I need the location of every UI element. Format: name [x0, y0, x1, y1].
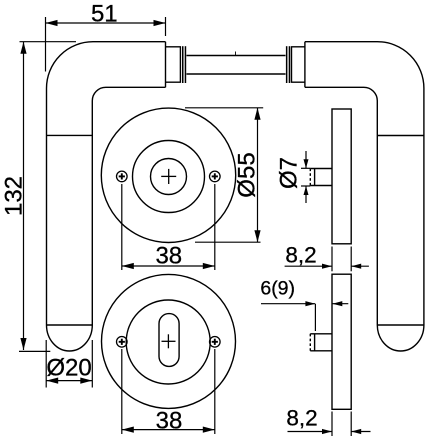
- right bearing collar: [292, 47, 305, 82]
- upper rose side view plate: [332, 109, 351, 244]
- lower spindle pin side view: [310, 334, 332, 351]
- dim 132 arrow top: [20, 42, 26, 54]
- svg-text:8,2: 8,2: [286, 406, 317, 431]
- dim D55 extension line bottom: [195, 241, 261, 243]
- dim 51 line: [46, 22, 166, 24]
- svg-text:6(9): 6(9): [260, 278, 295, 300]
- lower rose center cross: [162, 334, 176, 348]
- dim D20 extension line right: [91, 340, 93, 388]
- upper rose outer circle: [101, 108, 235, 242]
- dim 38 lower line: [122, 429, 215, 431]
- left lever grip joint line: [47, 134, 93, 136]
- dim 38 upper extension line right: [214, 184, 216, 270]
- right lever grip joint line: [377, 135, 424, 137]
- svg-text:51: 51: [91, 1, 118, 28]
- right lever grip end cap: [377, 325, 424, 351]
- dim D7 tick top: [301, 167, 310, 169]
- dim D55 extension line top: [185, 107, 263, 109]
- spindle: [187, 52, 286, 75]
- upper rose spindle hole: [151, 159, 187, 195]
- dim 8,2 upper arrow left: [322, 264, 332, 269]
- dim 38 lower arrow left: [122, 427, 134, 433]
- dim 132 arrow bottom: [20, 338, 26, 350]
- dim 132 extension line top: [20, 41, 77, 43]
- dim 8,2 upper extension right: [350, 247, 352, 272]
- dim 8,2 lower arrow right: [351, 429, 370, 434]
- left collar ring: [182, 46, 186, 83]
- lower rose screw left: [117, 337, 128, 348]
- svg-text:Ø7: Ø7: [276, 157, 303, 189]
- svg-text:38: 38: [155, 243, 182, 270]
- dim 51 arrow right: [154, 20, 166, 26]
- dim D55 line: [257, 108, 259, 242]
- upper spindle pin side view: [310, 169, 332, 186]
- dim 51 extension line right: [165, 17, 167, 36]
- dim 38 lower extension line left: [121, 349, 123, 434]
- dim D7 arrow top: [304, 151, 309, 168]
- dim 6(9) arrow right-pointing: [305, 301, 315, 306]
- dim 8,2 lower extension right: [350, 412, 352, 436]
- left lever inner contour: [92, 87, 165, 325]
- dim 38 upper arrow right: [203, 263, 215, 269]
- svg-text:38: 38: [156, 407, 183, 434]
- dim 6(9) extension line: [314, 304, 316, 331]
- dim D55 arrow bottom: [254, 230, 260, 242]
- left lever end face: [165, 42, 167, 88]
- upper rose middle circle: [133, 141, 205, 213]
- dim 6(9) leader: [261, 303, 315, 305]
- dim 51 arrow left: [46, 20, 58, 26]
- dim 8,2 upper arrow right: [351, 264, 369, 269]
- dim 8,2 upper extension left: [331, 247, 333, 272]
- dim D20 line: [46, 380, 92, 382]
- dim 132 line: [23, 42, 25, 350]
- lower rose middle circle: [126, 300, 210, 384]
- dim 38 lower arrow right: [203, 427, 215, 433]
- dim D20 extension line left: [45, 340, 47, 388]
- left lever grip end cap: [47, 325, 93, 351]
- upper rose screw left: [117, 171, 128, 182]
- dim 51 extension line left: [45, 17, 47, 72]
- dim D55 arrow top: [254, 108, 260, 120]
- right lever inner contour: [305, 87, 377, 325]
- dim 6(9) arrow left-pointing at rose face: [332, 301, 348, 306]
- right lever outer contour: [305, 42, 424, 325]
- dim 8,2 lower leader left: [288, 431, 332, 433]
- upper rose screw right: [210, 171, 221, 182]
- lower rose side view plate: [332, 274, 351, 409]
- dim D7 tick bottom: [301, 185, 310, 187]
- dim 132 extension line bottom: [19, 350, 50, 352]
- dim 38 upper extension line left: [121, 184, 123, 270]
- dim 38 lower extension line right: [214, 349, 216, 434]
- dim D7 arrow bottom: [304, 186, 309, 203]
- dim 38 upper line: [122, 265, 215, 267]
- right collar ring: [286, 46, 290, 83]
- left lever grip end cap joint: [47, 324, 93, 326]
- left lever outer contour: [47, 42, 166, 325]
- dim 38 upper arrow left: [122, 263, 134, 269]
- svg-text:8,2: 8,2: [285, 243, 316, 268]
- dim D20 arrow left: [46, 378, 58, 384]
- lower rose outer circle: [102, 274, 236, 408]
- lower rose screw right: [210, 337, 221, 348]
- right lever end face: [304, 42, 306, 88]
- svg-text:132: 132: [1, 176, 28, 216]
- left bearing collar: [166, 47, 181, 82]
- dim D20 arrow right: [80, 378, 92, 384]
- upper rose center cross: [161, 169, 176, 184]
- svg-text:Ø20: Ø20: [46, 355, 91, 382]
- lower rose keyhole: [159, 314, 179, 367]
- right lever grip end cap joint: [377, 324, 424, 326]
- dim 8,2 upper leader left: [285, 265, 332, 267]
- svg-text:Ø55: Ø55: [234, 152, 261, 197]
- dim 8,2 lower extension left: [331, 412, 333, 436]
- dim 8,2 lower arrow left: [322, 429, 332, 434]
